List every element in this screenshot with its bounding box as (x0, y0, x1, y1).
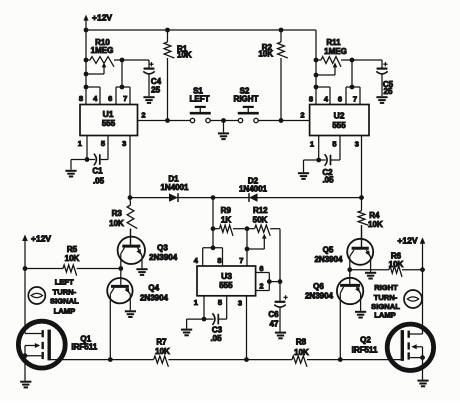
svg-text:RIGHT: RIGHT (234, 94, 259, 103)
svg-text:R11: R11 (326, 38, 341, 47)
svg-text:2N3904: 2N3904 (140, 293, 169, 302)
svg-text:1N4001: 1N4001 (160, 183, 189, 192)
svg-text:3: 3 (238, 299, 242, 308)
svg-text:2: 2 (141, 111, 145, 120)
svg-text:LAMP: LAMP (374, 311, 396, 320)
svg-text:R7: R7 (156, 337, 167, 346)
svg-text:Q5: Q5 (323, 245, 334, 254)
svg-text:.05: .05 (210, 334, 222, 343)
svg-text:1MEG: 1MEG (324, 47, 347, 56)
svg-text:5: 5 (218, 298, 222, 307)
svg-text:10K: 10K (177, 51, 192, 60)
svg-text:RIGHT: RIGHT (374, 283, 398, 292)
svg-text:Q2: Q2 (360, 336, 371, 345)
svg-text:LEFT: LEFT (55, 277, 74, 286)
svg-text:10K: 10K (389, 260, 404, 269)
svg-text:TURN-: TURN- (53, 287, 77, 296)
svg-text:7: 7 (123, 94, 127, 103)
svg-text:TURN-: TURN- (374, 293, 398, 302)
svg-text:3: 3 (355, 140, 359, 149)
svg-text:6: 6 (108, 94, 112, 103)
svg-text:5: 5 (332, 140, 336, 149)
svg-text:1N4001: 1N4001 (239, 185, 268, 194)
svg-text:555: 555 (332, 121, 346, 130)
svg-text:2N3904: 2N3904 (305, 291, 334, 300)
svg-text:IRF511: IRF511 (71, 343, 97, 352)
svg-text:LEFT: LEFT (190, 94, 210, 103)
svg-text:C1: C1 (92, 166, 103, 175)
svg-text:8: 8 (309, 95, 313, 104)
svg-text:25: 25 (151, 86, 160, 95)
svg-text:10K: 10K (258, 50, 273, 59)
svg-text:6: 6 (338, 95, 342, 104)
svg-text:U1: U1 (103, 109, 114, 119)
svg-text:R4: R4 (369, 211, 380, 220)
svg-text:+12V: +12V (92, 13, 112, 23)
svg-text:R5: R5 (67, 245, 78, 254)
svg-text:1MEG: 1MEG (91, 46, 114, 55)
svg-text:555: 555 (219, 281, 233, 290)
svg-text:.05: .05 (322, 176, 334, 185)
svg-text:LAMP: LAMP (54, 307, 76, 316)
svg-text:Q3: Q3 (157, 243, 168, 252)
svg-text:R12: R12 (253, 206, 268, 215)
svg-text:50K: 50K (253, 216, 268, 225)
svg-text:R8: R8 (296, 337, 307, 346)
svg-text:Q4: Q4 (148, 284, 159, 293)
svg-text:C6: C6 (268, 310, 279, 319)
svg-text:8: 8 (79, 94, 83, 103)
svg-text:10K: 10K (155, 347, 170, 356)
svg-text:2: 2 (300, 111, 304, 120)
svg-text:7: 7 (239, 256, 243, 265)
svg-text:R6: R6 (391, 251, 402, 260)
svg-text:7: 7 (353, 95, 357, 104)
svg-text:3: 3 (122, 139, 126, 148)
svg-text:2N3904: 2N3904 (314, 255, 343, 264)
svg-text:1: 1 (310, 140, 314, 149)
svg-text:1K: 1K (221, 215, 231, 224)
svg-text:2N3904: 2N3904 (149, 253, 178, 262)
svg-text:2: 2 (259, 282, 263, 291)
svg-text:8: 8 (217, 256, 221, 265)
svg-text:10K: 10K (368, 220, 383, 229)
svg-text:R3: R3 (112, 209, 123, 218)
svg-text:R9: R9 (221, 206, 232, 215)
svg-text:5: 5 (101, 139, 105, 148)
svg-text:1: 1 (194, 298, 198, 307)
svg-text:IRF511: IRF511 (352, 345, 378, 354)
svg-text:555: 555 (102, 119, 116, 128)
svg-text:47: 47 (270, 319, 279, 328)
svg-text:Q6: Q6 (313, 282, 324, 291)
svg-text:1: 1 (78, 139, 82, 148)
svg-text:+12V: +12V (31, 234, 51, 244)
svg-text:25: 25 (384, 87, 393, 96)
svg-text:10K: 10K (109, 219, 124, 228)
svg-text:+12V: +12V (397, 235, 417, 245)
svg-text:10K: 10K (65, 254, 80, 263)
svg-text:U3: U3 (221, 271, 232, 281)
svg-text:U2: U2 (334, 111, 345, 121)
svg-text:SIGNAL: SIGNAL (50, 297, 79, 306)
svg-text:6: 6 (259, 264, 263, 273)
svg-text:.05: .05 (93, 177, 105, 186)
svg-text:10K: 10K (294, 348, 309, 357)
